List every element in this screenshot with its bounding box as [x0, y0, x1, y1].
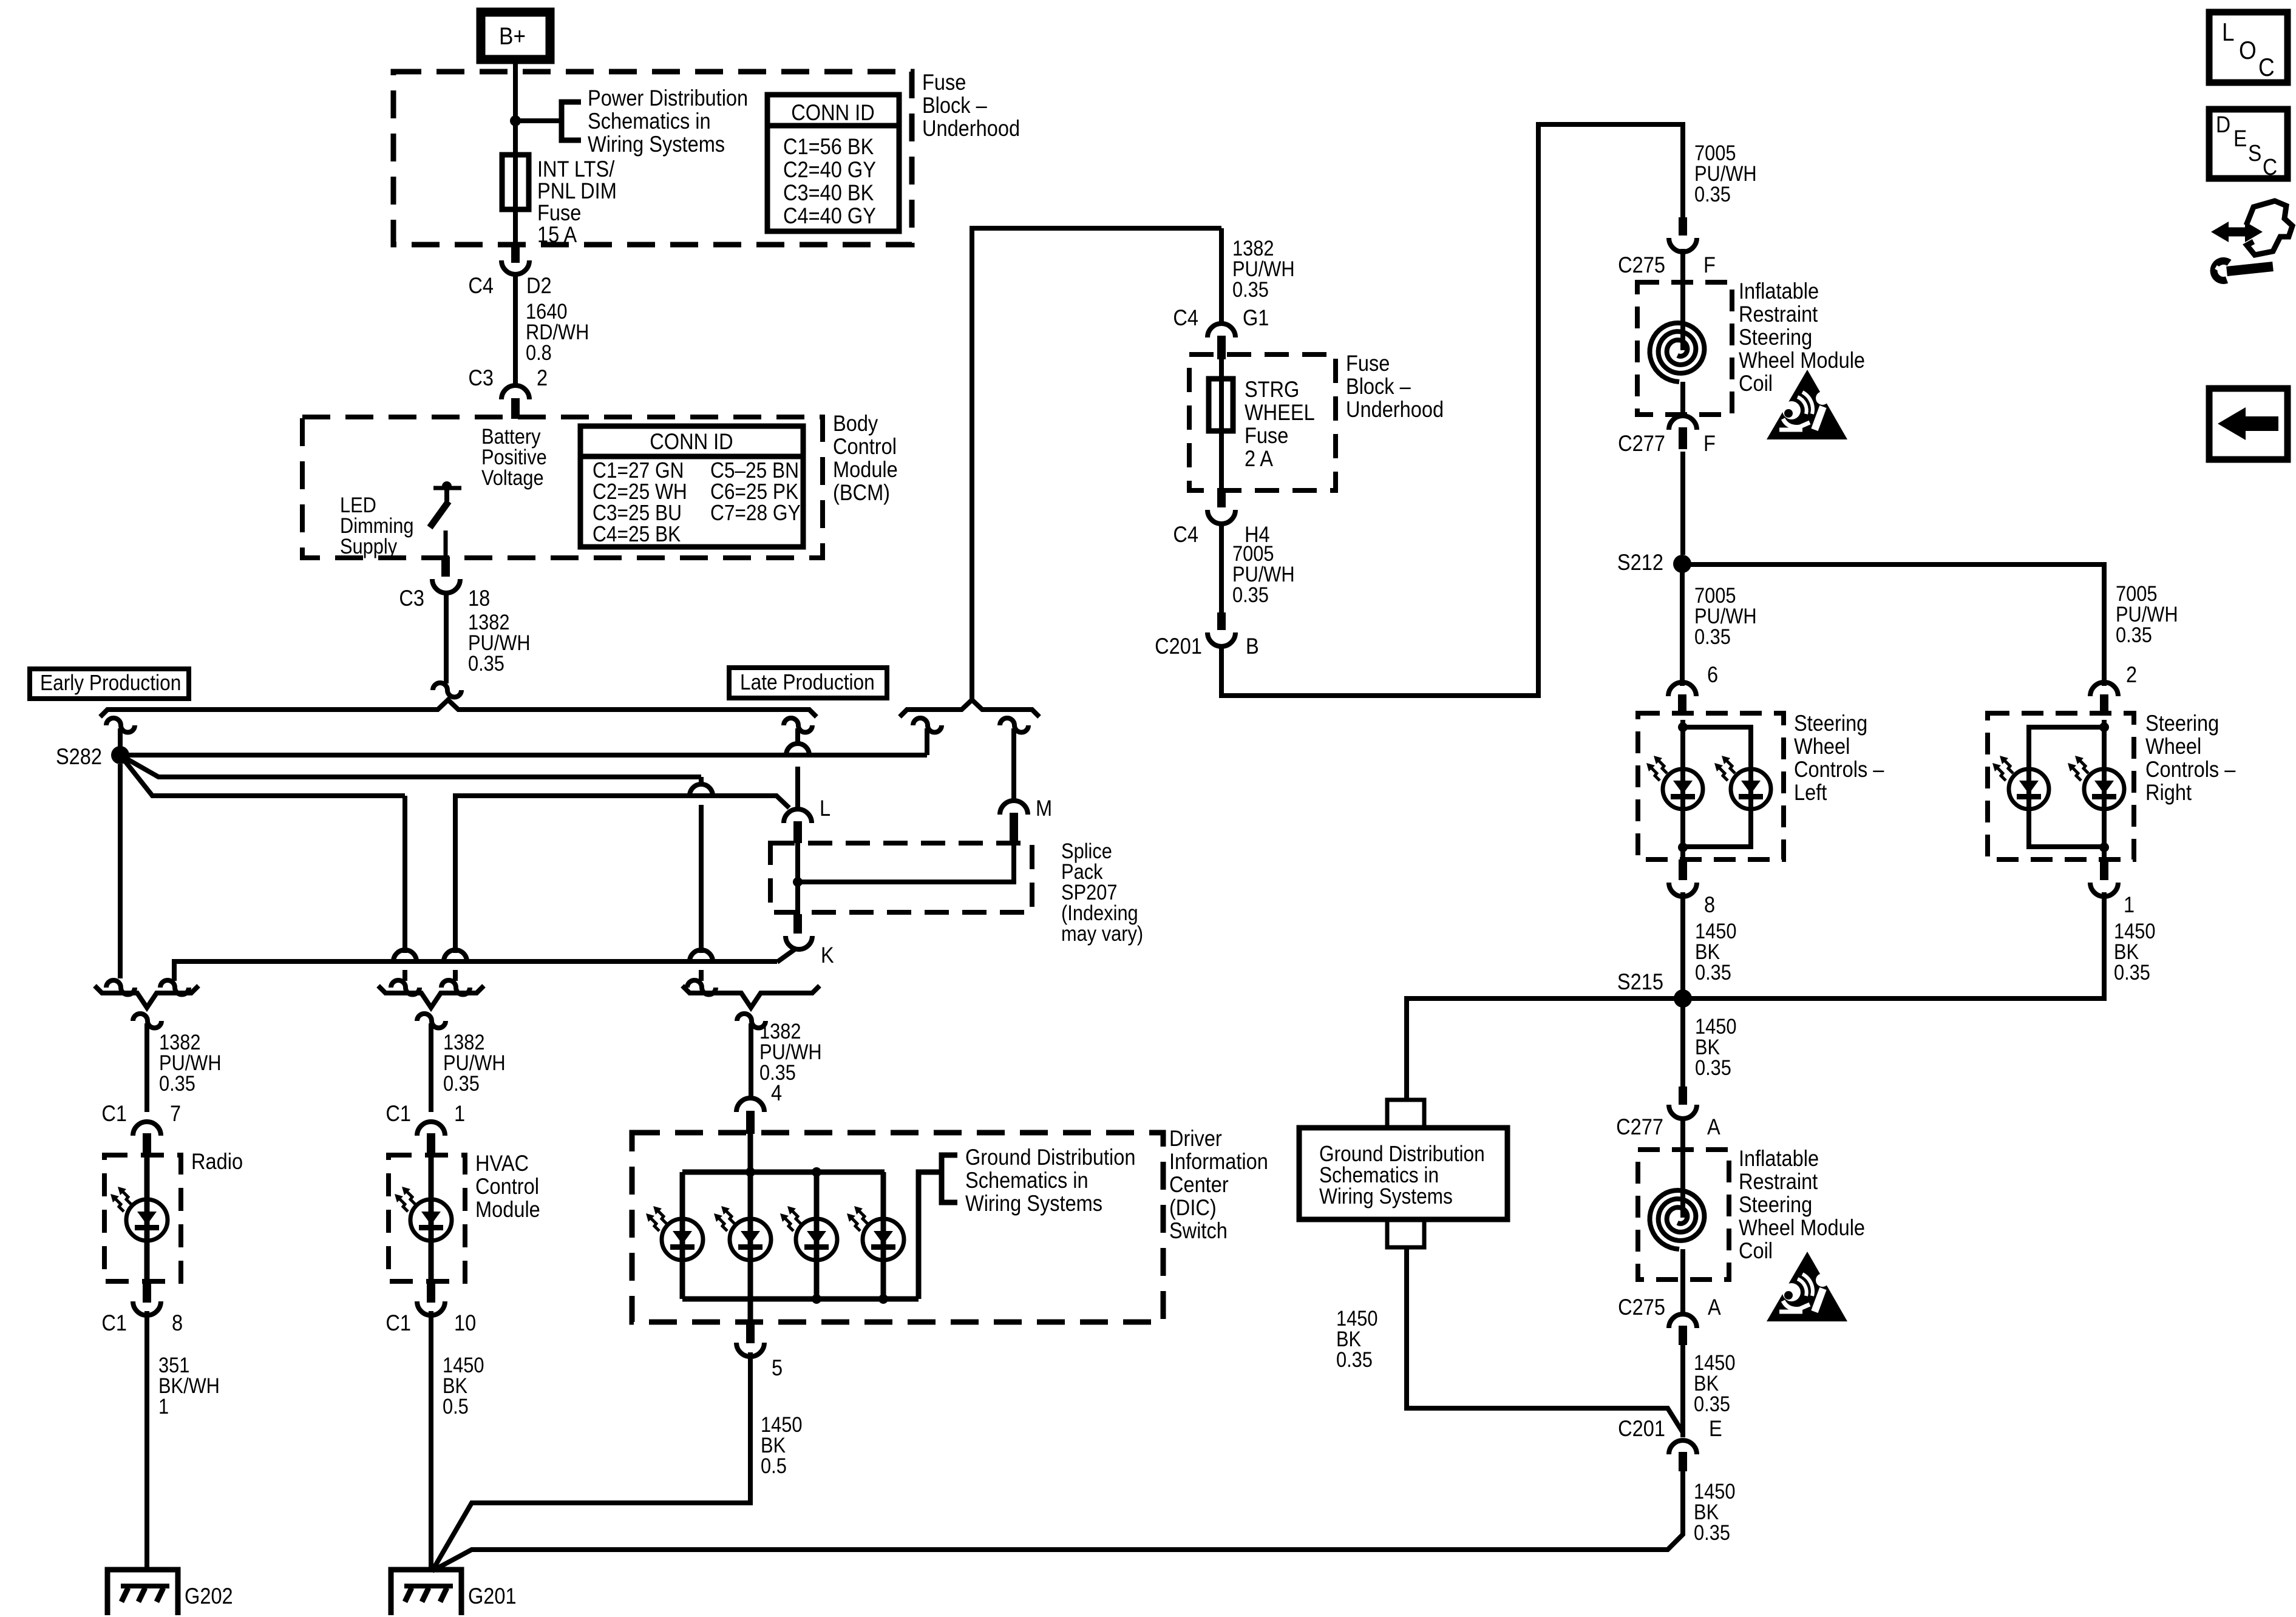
svg-text:C3: C3 [399, 586, 424, 611]
connector C3 pin 2 dome [501, 385, 529, 399]
svg-text:Control: Control [475, 1174, 539, 1199]
HVAC dashed box [389, 1155, 465, 1281]
DIC LED branch wires [680, 1172, 685, 1299]
wire ground distribution to C201 E [1407, 1247, 1683, 1432]
connector L blade [793, 821, 802, 843]
svg-text:C4: C4 [1173, 522, 1198, 547]
car adjust icon [2225, 228, 2249, 237]
connector DIC pin 5 blade [746, 1322, 755, 1343]
connector C1 pin 8 cup [133, 1301, 161, 1315]
svg-text:Voltage: Voltage [481, 466, 544, 489]
wire S215 to ground distribution [1407, 998, 1683, 1099]
radio brace [95, 986, 199, 1008]
svg-text:C277: C277 [1618, 431, 1665, 456]
LED steering left 1 [1663, 769, 1703, 809]
svg-text:2: 2 [2126, 662, 2137, 687]
wire C275 A to C201 E [1680, 1344, 1685, 1437]
wire through radio LED [144, 1155, 150, 1281]
svg-text:0.35: 0.35 [159, 1071, 195, 1095]
coil 2 spiral [1650, 1190, 1705, 1249]
connector DIC pin 5 cup [736, 1343, 764, 1357]
svg-text:L: L [820, 796, 830, 821]
svg-text:Underhood: Underhood [922, 116, 1020, 141]
early production box [30, 669, 189, 699]
svg-text:Late Production: Late Production [740, 670, 875, 694]
hook radio wire top [133, 1014, 161, 1028]
connector C3 pin 18 blade [441, 557, 450, 577]
DIC dashed box [632, 1133, 1163, 1322]
svg-text:Right: Right [2145, 780, 2192, 805]
hook S282 drop [106, 718, 135, 733]
svg-text:1: 1 [2124, 892, 2135, 917]
connector K cup [786, 936, 812, 949]
fuse INT LTS / PNL DIM 15A [502, 155, 529, 209]
connector C1 pin 10 cup [417, 1301, 445, 1315]
svg-text:S: S [2248, 140, 2261, 166]
svg-text:C1: C1 [101, 1310, 127, 1335]
svg-text:Power Distribution: Power Distribution [588, 86, 748, 110]
svg-text:0.35: 0.35 [443, 1071, 480, 1095]
connector C201 pin E blade [1679, 1452, 1687, 1471]
svg-text:D2: D2 [526, 273, 552, 298]
LED steering left 2 [1731, 769, 1771, 809]
connector pin 1 cup [2090, 883, 2118, 897]
connector M dome [1000, 801, 1028, 815]
svg-text:Block –: Block – [922, 93, 987, 118]
CONN ID table 2 [580, 426, 803, 547]
node S212 dot [1673, 555, 1691, 573]
svg-text:C201: C201 [1155, 634, 1202, 659]
connector hook above early production brace [433, 683, 461, 697]
power symbol B+ box [481, 12, 550, 59]
bracket ground distribution top [1387, 1100, 1424, 1128]
svg-text:Wheel: Wheel [1794, 734, 1850, 759]
LED DIC 1 [662, 1219, 703, 1260]
DIC junction dots [746, 1167, 755, 1177]
connector DIC pin 4 blade [746, 1111, 755, 1134]
DIC brace [682, 986, 820, 1008]
connector C277 pin A cup [1669, 1105, 1697, 1119]
splice pack junction dot [793, 877, 803, 887]
svg-text:C4=25 BK: C4=25 BK [593, 522, 681, 546]
wire through STRG fuse [1219, 359, 1224, 488]
coil module 1 dashed box [1637, 282, 1732, 415]
svg-text:C1=56 BK: C1=56 BK [783, 134, 874, 159]
svg-text:F: F [1703, 431, 1716, 456]
wire ground-note header horizontal [174, 961, 777, 981]
svg-text:CONN ID: CONN ID [650, 429, 733, 454]
svg-text:Steering: Steering [1739, 1192, 1812, 1217]
svg-text:Driver: Driver [1169, 1126, 1222, 1151]
svg-text:8: 8 [172, 1310, 183, 1335]
connector C201 pin B blade [1217, 612, 1226, 630]
svg-text:18: 18 [468, 586, 490, 611]
svg-text:Schematics in: Schematics in [588, 109, 711, 134]
svg-text:E: E [2233, 126, 2247, 151]
svg-text:Coil: Coil [1739, 371, 1773, 396]
hop branch2 over ground header wire [690, 950, 713, 961]
svg-text:Radio: Radio [191, 1149, 243, 1174]
wire DIC 1382 PU/WH [749, 1023, 753, 1099]
wire K to ground-note header [777, 948, 796, 962]
hop L-wire over S282 branch 1 [786, 744, 809, 755]
svg-text:Controls –: Controls – [2145, 757, 2236, 782]
wire branch 2 drop to DIC [699, 777, 704, 981]
svg-text:C4: C4 [468, 273, 494, 298]
wire splice L to HVAC right cup [455, 796, 789, 981]
svg-text:B+: B+ [499, 22, 526, 50]
svg-text:Body: Body [833, 411, 878, 436]
hop splice-L wire over ground header wire [444, 950, 467, 961]
early production brace [100, 700, 817, 717]
wire through HVAC LED [429, 1155, 434, 1281]
wire 1640 RD/WH [513, 276, 518, 387]
wire out of coil 1 [1680, 382, 1685, 418]
wire late brace caret riser [972, 228, 1221, 702]
svg-text:C: C [2258, 53, 2275, 82]
ground distribution solid box [1299, 1128, 1507, 1219]
svg-text:D: D [2216, 112, 2230, 137]
wire into coil 2 [1680, 1119, 1685, 1218]
svg-text:Information: Information [1169, 1149, 1268, 1174]
wire 7005 PU/WH to S212 [1680, 452, 1685, 555]
connector pin 8 cup [1669, 883, 1697, 897]
svg-text:0.35: 0.35 [1232, 277, 1269, 301]
svg-text:Controls –: Controls – [1794, 757, 1884, 782]
connector C201 pin E dome [1669, 1440, 1697, 1454]
hook HVAC brace right [441, 980, 470, 995]
svg-text:Center: Center [1169, 1172, 1229, 1197]
svg-text:C4: C4 [1173, 305, 1198, 330]
svg-text:6: 6 [1707, 662, 1718, 687]
svg-text:Restraint: Restraint [1739, 1169, 1818, 1194]
connector DIC pin 4 dome [736, 1098, 764, 1112]
connector C1 pin 1 dome [417, 1122, 445, 1136]
splice pack internal wires [795, 843, 800, 914]
hook HVAC brace left [391, 980, 419, 995]
svg-text:Schematics in: Schematics in [965, 1168, 1089, 1193]
svg-text:0.35: 0.35 [1694, 625, 1731, 648]
svg-text:Fuse: Fuse [922, 70, 966, 95]
svg-text:G201: G201 [468, 1584, 517, 1609]
wire hook to S282 [118, 728, 123, 748]
LOC navigation box [2209, 12, 2288, 83]
svg-text:CONN ID: CONN ID [791, 100, 874, 125]
svg-text:Steering: Steering [2145, 711, 2219, 736]
svg-text:S282: S282 [56, 744, 102, 769]
svg-text:5: 5 [772, 1355, 783, 1380]
svg-text:A: A [1707, 1114, 1720, 1139]
connector C4 pin H4 cup [1207, 510, 1235, 524]
hook early brace right [784, 718, 812, 733]
connector C4 pin D2 cup [501, 260, 529, 274]
wire late brace right to M [1011, 728, 1016, 800]
wire S282 down to radio brace [118, 764, 123, 978]
connector K blade [793, 914, 802, 934]
svg-text:Steering: Steering [1739, 325, 1812, 350]
LED HVAC backlight [410, 1199, 452, 1241]
svg-text:Wiring Systems: Wiring Systems [965, 1191, 1102, 1216]
connector C1 pin 1 blade [427, 1133, 435, 1157]
splice pack SP207 dashed box [770, 843, 1032, 912]
SWC right junction dots [2099, 722, 2109, 732]
late production box [729, 668, 887, 698]
connector C275 pin A blade [1679, 1326, 1687, 1345]
svg-text:0.35: 0.35 [2116, 623, 2152, 646]
connector C4 pin D2 blade [511, 245, 520, 263]
svg-text:Module: Module [475, 1197, 540, 1222]
wire out of coil 2 [1680, 1249, 1685, 1312]
wire radio 1382 PU/WH [144, 1023, 149, 1112]
svg-text:A: A [1708, 1295, 1721, 1320]
junction dot at B+ feed [510, 115, 521, 126]
hook late brace left [913, 718, 942, 733]
connector C1 pin 7 blade [143, 1133, 151, 1157]
wire drop to C4 G1 [1219, 228, 1224, 323]
wire S212 to right branch [1682, 564, 2104, 686]
LED radio backlight [126, 1199, 168, 1241]
svg-text:C277: C277 [1616, 1114, 1663, 1139]
svg-text:Module: Module [833, 457, 898, 482]
svg-text:Steering: Steering [1794, 711, 1867, 736]
back arrow navigation box [2209, 388, 2288, 459]
svg-text:G1: G1 [1243, 305, 1269, 330]
wire SWC left to S215 [1680, 892, 1685, 991]
svg-text:C201: C201 [1618, 1416, 1665, 1441]
connector pin 2 dome [2090, 682, 2118, 696]
bracket ground distribution bottom [1387, 1219, 1424, 1247]
svg-text:S212: S212 [1617, 550, 1663, 575]
wire DIC 1450 BK to G201 [432, 1352, 750, 1571]
svg-text:Supply: Supply [340, 534, 398, 558]
DIC internal wire vertical [748, 1134, 753, 1322]
ground G201 symbol [391, 1570, 461, 1615]
svg-text:Early Production: Early Production [40, 671, 181, 695]
fuse block underhood 2 dashed box [1189, 354, 1336, 490]
SRS warning triangle 2 [1767, 1252, 1847, 1321]
bracket power distribution reference [562, 102, 581, 140]
connector C4 pin G1 blade [1217, 336, 1226, 359]
svg-text:7: 7 [170, 1101, 181, 1126]
BCM dashed box [302, 417, 823, 558]
wire into coil 1 [1680, 249, 1685, 350]
svg-text:C3=40 BK: C3=40 BK [783, 180, 874, 205]
connector C1 pin 10 blade [427, 1281, 435, 1303]
svg-text:Inflatable: Inflatable [1739, 1146, 1819, 1171]
svg-text:0.8: 0.8 [526, 341, 552, 364]
wire 7005 PU/WH (fuse to C201) [1219, 522, 1224, 612]
connector C275 pin F blade [1679, 217, 1687, 236]
svg-text:2 A: 2 A [1245, 446, 1274, 471]
svg-text:C275: C275 [1618, 1295, 1665, 1320]
connector C277 pin F dome [1669, 416, 1697, 430]
svg-text:C: C [2263, 154, 2277, 180]
hook HVAC wire top [417, 1014, 446, 1028]
hop branch2 over wire3 [690, 784, 713, 796]
svg-text:0.35: 0.35 [1695, 1056, 1731, 1079]
wire early brace right to L [795, 728, 800, 807]
svg-text:Left: Left [1794, 780, 1827, 805]
svg-text:Control: Control [833, 434, 897, 459]
switch LED dimming supply [433, 486, 461, 490]
connector C275 pin F cup [1669, 238, 1697, 252]
bracket ground distribution reference (DIC) [942, 1155, 957, 1202]
wire S282 branch 1 [120, 753, 927, 758]
HVAC brace [378, 986, 484, 1008]
CONN ID table 1 [767, 95, 899, 231]
svg-text:HVAC: HVAC [475, 1151, 529, 1176]
connector C1 pin 8 blade [143, 1281, 151, 1303]
wire HVAC 1382 PU/WH [429, 1023, 433, 1112]
wire SWC right to S215 line [1683, 892, 2104, 998]
fuse block underhood dashed box [393, 72, 912, 245]
svg-text:C4=40 GY: C4=40 GY [783, 203, 876, 228]
svg-text:1: 1 [454, 1101, 465, 1126]
svg-text:Fuse: Fuse [1245, 423, 1288, 448]
DIC ground wire to bracket [919, 1172, 942, 1299]
svg-text:L: L [2222, 18, 2235, 47]
connector pin 6 dome [1668, 682, 1696, 696]
svg-text:0.5: 0.5 [443, 1394, 469, 1418]
LED steering right 1 [2009, 769, 2049, 809]
svg-text:Underhood: Underhood [1346, 397, 1444, 422]
svg-text:Switch: Switch [1169, 1218, 1228, 1243]
wire C201 E to G201 [432, 1471, 1683, 1571]
svg-text:10: 10 [454, 1310, 476, 1335]
steering wheel controls left dashed box [1638, 713, 1784, 859]
connector pin 1 blade [2100, 859, 2108, 880]
wire B+ to fuse [513, 59, 518, 245]
wire S282 branch 1 riser to late brace [925, 728, 929, 755]
connector pin 8 blade [1679, 859, 1687, 880]
connector C277 pin F blade [1679, 427, 1687, 449]
svg-text:C2=40 GY: C2=40 GY [783, 157, 876, 182]
svg-text:C3: C3 [468, 365, 494, 390]
wire C201 B loop to coil [1221, 124, 1683, 696]
svg-text:Fuse: Fuse [1346, 351, 1390, 376]
svg-text:0.35: 0.35 [1695, 960, 1731, 984]
hook late brace right [1000, 718, 1028, 733]
LED DIC 2 [730, 1219, 771, 1260]
svg-text:0.35: 0.35 [1694, 182, 1731, 206]
svg-text:Wheel Module: Wheel Module [1739, 348, 1865, 373]
wire to power distribution note [515, 118, 560, 123]
svg-text:15 A: 15 A [537, 222, 577, 247]
fuse STRG WHEEL 2A [1209, 379, 1233, 431]
connector C3 pin 18 cup [432, 579, 460, 593]
LED steering right 2 [2084, 769, 2124, 809]
wire 1450 BK to G201 [429, 1311, 433, 1570]
svg-text:C1: C1 [101, 1101, 127, 1126]
hop branch3 over ground header wire [393, 950, 416, 961]
hook radio brace left (S282 drop) [106, 980, 135, 995]
svg-text:0.35: 0.35 [1232, 583, 1269, 606]
connector C3 pin 2 blade [511, 398, 520, 419]
late production brace [900, 700, 1039, 717]
svg-text:M: M [1036, 796, 1052, 821]
svg-text:0.35: 0.35 [1694, 1392, 1730, 1415]
coil 1 spiral [1650, 323, 1705, 382]
svg-text:B: B [1246, 634, 1259, 659]
connector pin 2 blade [2100, 694, 2108, 715]
svg-text:Ground Distribution: Ground Distribution [965, 1145, 1135, 1170]
wire S282 branch 2 [120, 755, 701, 777]
svg-text:S215: S215 [1617, 969, 1663, 994]
hook DIC brace left [687, 980, 716, 994]
svg-text:C275: C275 [1618, 253, 1665, 277]
hook DIC wire top [737, 1014, 766, 1028]
connector C275 pin A dome [1669, 1314, 1697, 1328]
wire 351 BK/WH to G202 [144, 1311, 149, 1570]
svg-text:C1: C1 [385, 1310, 411, 1335]
connector M blade [1010, 813, 1018, 843]
svg-text:Restraint: Restraint [1739, 302, 1818, 327]
svg-text:0.35: 0.35 [1694, 1520, 1730, 1544]
svg-text:O: O [2239, 36, 2257, 65]
svg-text:Inflatable: Inflatable [1739, 279, 1819, 303]
svg-text:E: E [1709, 1416, 1722, 1441]
connector C201 pin B cup [1207, 632, 1235, 646]
svg-text:Wiring Systems: Wiring Systems [1319, 1184, 1453, 1209]
DESC navigation box [2209, 109, 2288, 178]
SWC right internal wires [2102, 720, 2107, 859]
DIC internal bus top [682, 1170, 885, 1175]
connector C4 pin G1 dome [1207, 324, 1235, 337]
SWC left internal wires [1680, 720, 1685, 859]
svg-text:0.35: 0.35 [1336, 1347, 1373, 1371]
svg-text:F: F [1703, 253, 1716, 277]
connector pin 6 blade [1678, 694, 1686, 715]
svg-text:(BCM): (BCM) [833, 480, 890, 505]
connector C1 pin 7 dome [133, 1122, 161, 1136]
svg-text:(DIC): (DIC) [1169, 1195, 1217, 1220]
wire S215 down [1680, 1006, 1685, 1086]
svg-text:Wiring Systems: Wiring Systems [588, 132, 725, 157]
wire S282 branch 3 [120, 755, 405, 796]
svg-text:1: 1 [158, 1394, 169, 1418]
svg-text:2: 2 [537, 365, 548, 390]
steering wheel controls right dashed box [1988, 713, 2134, 859]
SWC left junction dots [1678, 722, 1688, 732]
svg-text:Coil: Coil [1739, 1238, 1773, 1263]
connector L dome [784, 809, 812, 823]
svg-text:STRG: STRG [1245, 377, 1299, 402]
LED DIC 4 [863, 1219, 904, 1260]
SRS warning triangle 1 [1767, 370, 1847, 439]
svg-text:0.35: 0.35 [468, 651, 504, 675]
svg-text:0.5: 0.5 [761, 1454, 787, 1477]
wire 1382 PU/WH to early production brace [444, 591, 449, 683]
node S215 dot [1674, 989, 1692, 1008]
svg-text:Wheel: Wheel [2145, 734, 2201, 759]
ground G202 symbol [107, 1570, 178, 1615]
svg-text:C7=28 GY: C7=28 GY [710, 501, 801, 525]
svg-text:may vary): may vary) [1061, 921, 1143, 945]
svg-text:K: K [821, 943, 834, 968]
hook radio brace right [160, 980, 189, 995]
svg-text:0.35: 0.35 [2114, 960, 2150, 984]
svg-text:4: 4 [771, 1080, 782, 1105]
DIC internal bus bottom [682, 1297, 919, 1302]
LED DIC 3 [796, 1219, 837, 1260]
connector C4 pin H4 blade [1217, 488, 1226, 507]
wire S212 left branch [1680, 564, 1685, 686]
radio dashed box [104, 1155, 181, 1281]
svg-text:G202: G202 [185, 1584, 233, 1609]
coil module 2 dashed box [1638, 1150, 1729, 1280]
svg-text:8: 8 [1704, 892, 1715, 917]
svg-text:WHEEL: WHEEL [1245, 400, 1315, 425]
